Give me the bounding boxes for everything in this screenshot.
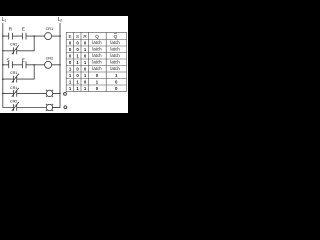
svg-text:R: R: [9, 27, 13, 33]
svg-text:latch: latch: [92, 53, 102, 58]
svg-text:E: E: [22, 57, 25, 63]
svg-text:Q: Q: [114, 34, 118, 39]
svg-text:latch: latch: [110, 47, 120, 52]
svg-text:Q: Q: [95, 34, 99, 39]
svg-text:latch: latch: [92, 40, 102, 45]
svg-text:latch: latch: [110, 53, 120, 58]
svg-text:2: 2: [60, 19, 62, 23]
svg-text:CR2: CR2: [10, 41, 17, 46]
svg-text:CR2: CR2: [46, 55, 53, 60]
svg-text:S: S: [6, 57, 9, 63]
svg-text:CR2: CR2: [10, 99, 17, 104]
svg-text:CR1: CR1: [10, 85, 17, 90]
svg-text:latch: latch: [110, 60, 120, 65]
svg-text:latch: latch: [110, 66, 120, 71]
svg-text:latch: latch: [92, 60, 102, 65]
svg-text:E: E: [69, 34, 72, 39]
svg-text:E: E: [22, 27, 25, 33]
svg-text:CR1: CR1: [10, 70, 17, 75]
svg-text:CR1: CR1: [46, 26, 53, 31]
svg-text:latch: latch: [92, 47, 102, 52]
svg-text:latch: latch: [110, 40, 120, 45]
svg-text:S: S: [76, 34, 79, 39]
svg-text:1: 1: [4, 19, 6, 23]
svg-text:latch: latch: [92, 66, 102, 71]
